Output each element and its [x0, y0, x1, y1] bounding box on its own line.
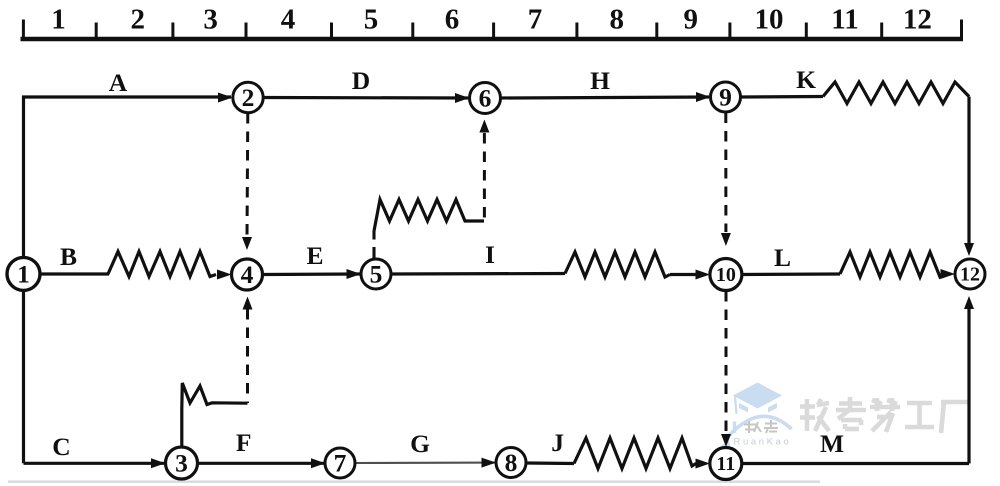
main solid lines [22, 82, 969, 469]
node numbers [17, 83, 980, 478]
svg-text:6: 6 [445, 4, 460, 36]
svg-text:1: 1 [51, 4, 66, 36]
svg-text:11: 11 [716, 453, 735, 475]
arrow into node 5 [347, 269, 362, 279]
node 10 [710, 259, 742, 291]
node 7 [325, 448, 355, 478]
arrow into node 12 from L [941, 269, 956, 279]
svg-text:12: 12 [960, 264, 980, 286]
watermark logo cap [715, 383, 792, 452]
zigzag J [574, 438, 696, 469]
wire dashed 2 to 4 [246, 113, 250, 236]
svg-text:G: G [410, 429, 430, 458]
arrow up into node 12 bottom [964, 296, 974, 309]
svg-text:E: E [306, 241, 323, 270]
arrow up into node 6 bottom [479, 120, 489, 133]
wire G line 7 to 8 [355, 462, 495, 464]
bottom scan smudge [8, 481, 820, 483]
软 [800, 404, 815, 409]
watermark big text 软考梦工厂 [800, 397, 968, 433]
arrow into node 3 [151, 458, 165, 468]
arrow down into node 11 [721, 434, 731, 447]
wire dashed up into 6 [483, 133, 486, 221]
node 5 float zigzag [374, 200, 484, 232]
wire bottom C line [24, 462, 165, 465]
wire M line 11 to right corner [742, 462, 969, 465]
node 4 [232, 259, 263, 290]
wire F line 3 to 7 [198, 462, 325, 465]
svg-text:B: B [60, 242, 77, 271]
svg-text:3: 3 [203, 4, 218, 36]
arrow into node 4 from B [217, 270, 232, 280]
svg-text:4: 4 [241, 260, 254, 289]
node 5 top stub dashed [372, 231, 375, 259]
svg-text:8: 8 [609, 4, 624, 36]
svg-text:3: 3 [175, 449, 188, 478]
考 [839, 401, 862, 406]
梦 [875, 398, 880, 411]
arrow down into node 12 top [964, 243, 974, 256]
svg-text:H: H [590, 66, 610, 95]
node 3 [166, 447, 198, 479]
wire 8 to J zigzag [526, 461, 574, 465]
wire right vertical down to 12 [967, 97, 970, 244]
wire D line 2 to 6 [264, 96, 469, 100]
wire dashed up into 4 [246, 309, 249, 403]
svg-text:4: 4 [281, 4, 296, 36]
svg-text:7: 7 [528, 4, 543, 36]
wire dashed 9 to 10 [724, 113, 727, 233]
wire H line 6 to 9 [501, 97, 710, 98]
svg-text:F: F [236, 428, 252, 457]
工 [907, 401, 932, 406]
wire 9 to K zigzag start [741, 95, 824, 99]
svg-text:RuanKao: RuanKao [734, 437, 792, 448]
ruler baseline [21, 37, 964, 42]
left vertical through node 1 [22, 97, 25, 464]
arrow into node 8 [482, 458, 497, 468]
arrow into node 10 from I [696, 270, 711, 280]
svg-text:5: 5 [364, 4, 379, 36]
wire I to node 10 [670, 273, 697, 276]
watermark small text 软考 [744, 420, 778, 433]
svg-text:10: 10 [755, 4, 784, 36]
svg-text:8: 8 [505, 448, 518, 477]
arrow into node 9 [696, 92, 710, 102]
node 2 [233, 82, 263, 112]
arrowheads [151, 92, 974, 469]
svg-text:7: 7 [334, 449, 347, 478]
ruler ticks [23, 20, 961, 40]
arrow into node 2 [218, 93, 233, 103]
svg-text:J: J [551, 428, 564, 457]
arrow into node 11 from J [696, 459, 711, 469]
svg-text:2: 2 [242, 83, 255, 112]
svg-text:10: 10 [716, 264, 736, 286]
zigzag K [823, 82, 969, 104]
svg-text:2: 2 [131, 4, 146, 36]
svg-text:5: 5 [370, 260, 383, 289]
dashed verticals [247, 113, 726, 434]
svg-text:9: 9 [719, 83, 732, 112]
svg-text:11: 11 [831, 4, 858, 36]
svg-text:A: A [109, 68, 128, 97]
svg-text:C: C [52, 432, 70, 461]
zigzag I [565, 252, 670, 277]
arrow down into node 10 [721, 233, 731, 246]
zigzag L [840, 252, 944, 277]
node 6 [470, 83, 501, 114]
svg-text:9: 9 [684, 4, 699, 36]
node 3 float zigzag [182, 383, 248, 448]
wire right vertical up to 12 [967, 309, 970, 464]
svg-text:M: M [820, 429, 844, 458]
svg-text:D: D [352, 66, 370, 95]
svg-text:6: 6 [479, 84, 492, 113]
arrow into node 7 [311, 458, 325, 468]
node 5 [361, 259, 391, 289]
wire top A line [22, 95, 231, 98]
厂 [941, 400, 968, 405]
wire E line 4 to 5 [263, 272, 361, 276]
node 9 [711, 82, 741, 112]
arrow down into node 4 [242, 237, 252, 250]
node 1 [7, 257, 40, 290]
node 8 [496, 448, 526, 478]
wire 5 to I zigzag [391, 272, 565, 276]
activity labels [52, 65, 844, 461]
wire 10 to L zigzag [742, 272, 840, 276]
node 12 [955, 259, 985, 289]
node 11 [710, 448, 742, 480]
svg-text:I: I [485, 240, 495, 269]
arrow into node 6 [455, 93, 469, 103]
arrow up into node 4 bottom [243, 297, 253, 310]
svg-text:L: L [774, 243, 791, 272]
svg-text:12: 12 [903, 4, 932, 36]
wire dashed 10 to 11 [725, 291, 728, 434]
zigzag B [108, 252, 216, 277]
wire node 1 to B zigzag [40, 272, 109, 275]
svg-text:K: K [796, 65, 816, 94]
svg-text:1: 1 [17, 260, 30, 289]
ruler numbers [51, 4, 932, 36]
